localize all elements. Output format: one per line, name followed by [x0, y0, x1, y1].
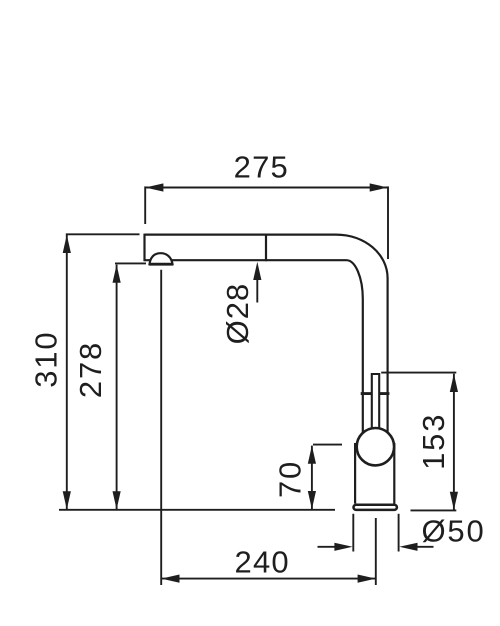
- wire: extension line left of diameter 50: [352, 514, 354, 552]
- wire: diameter 50 right arrow: [414, 546, 434, 548]
- dimension line 153: [453, 374, 455, 510]
- wire: diameter 50 left arrow: [318, 546, 339, 548]
- wire: extension line from spout outlet down to 240 dim: [160, 270, 162, 585]
- svg-text:278: 278: [73, 341, 108, 398]
- wire: extension line left of 275 dim: [144, 186, 146, 224]
- svg-text:Ø50: Ø50: [422, 513, 486, 548]
- dimension line 240: [161, 578, 375, 580]
- base flange: [354, 505, 397, 510]
- svg-text:153: 153: [416, 413, 451, 470]
- spout: bottom outline with inner bend: [145, 260, 363, 434]
- lever handle: [372, 374, 379, 436]
- wire: extension line top of 278 (spout bottom level): [115, 262, 146, 264]
- aerator outlet dome: [150, 253, 173, 264]
- svg-text:240: 240: [235, 545, 290, 580]
- wire: leader arrow for diameter 28: [256, 275, 258, 303]
- wire: extension line right of 275 dim (tube axis up): [387, 186, 389, 259]
- svg-text:275: 275: [234, 149, 289, 184]
- svg-text:70: 70: [273, 460, 308, 498]
- ball joint circle: [357, 428, 394, 465]
- dimension line 278: [116, 265, 118, 510]
- spout: pull-out joint line: [265, 234, 267, 262]
- spout: top outline with outer bend: [145, 235, 388, 435]
- wire: extension line right of diameter 50: [398, 514, 400, 552]
- dimension line 275: [145, 187, 387, 189]
- body sides below ball: [354, 443, 356, 504]
- wire: extension line top of 310 (spout top level): [66, 233, 140, 235]
- spout: left end cap: [143, 234, 145, 262]
- wire: base line (counter level): [59, 509, 335, 511]
- aerator base line: [149, 263, 173, 266]
- wire: body axis extension line down to 240 dim: [375, 518, 377, 585]
- joint mark on riser tube: [361, 392, 390, 395]
- dimension line 310: [66, 235, 68, 510]
- svg-text:310: 310: [29, 331, 64, 388]
- wire: extension line top of 70 dim: [313, 444, 342, 446]
- dimension line 70: [311, 446, 313, 510]
- svg-text:Ø28: Ø28: [220, 283, 255, 345]
- wire: extension line bottom of 153 dim: [411, 509, 457, 511]
- wire: extension line top of 153 dim: [381, 372, 456, 374]
